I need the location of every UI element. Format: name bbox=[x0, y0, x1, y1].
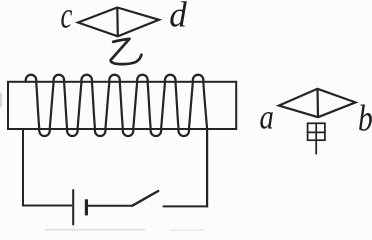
compass needle 乙 (diamond) bbox=[78, 8, 159, 37]
battery long plate bbox=[72, 189, 74, 225]
character 乙 bbox=[111, 39, 142, 64]
svg-text:a: a bbox=[260, 97, 274, 136]
svg-text:c: c bbox=[61, 0, 73, 36]
compass 乙 divider line bbox=[116, 8, 119, 37]
compass 甲 divider line bbox=[316, 89, 319, 117]
compass needle 甲 (diamond) bbox=[279, 89, 356, 117]
wire switch to right corner bbox=[163, 205, 208, 207]
svg-text:b: b bbox=[358, 98, 372, 139]
wire battery to switch bbox=[88, 205, 132, 207]
iron core bar bbox=[8, 82, 236, 129]
battery short plate bbox=[85, 199, 88, 215]
coil winding bbox=[26, 75, 207, 207]
scan smudges bbox=[0, 93, 205, 231]
svg-text:d: d bbox=[169, 0, 187, 35]
character 甲 bbox=[308, 123, 325, 153]
switch blade bbox=[132, 191, 158, 206]
left lead wire bbox=[23, 129, 72, 206]
